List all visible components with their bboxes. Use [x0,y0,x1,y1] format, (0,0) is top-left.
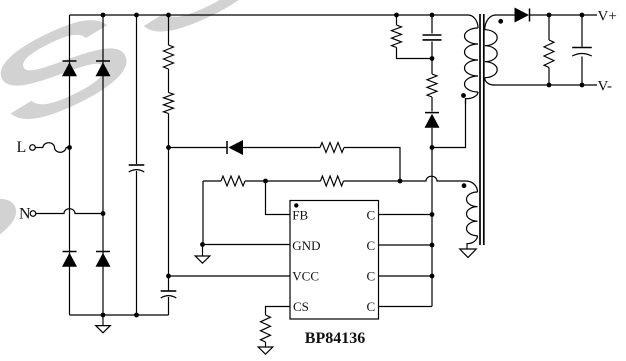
diode D1 bridge upper [63,60,77,62]
wire FB line [203,180,221,182]
node GND row [200,242,205,247]
node snubber C top [430,13,435,18]
wire bulk cap column bottom [136,171,138,315]
node snubber R top [394,13,399,18]
node out R top [547,13,552,18]
resistor R6 CS [261,315,271,342]
ground main [102,315,104,326]
secondary polarity dot [498,19,503,24]
wire divider to ground [202,181,204,245]
wire left column L [69,15,71,315]
wire GND pin [203,244,291,246]
wire FB pin [266,181,291,215]
node out C bottom [580,83,585,88]
aux polarity dot [462,183,467,188]
node top rail x136 [134,13,139,18]
svg-text:C: C [367,299,376,314]
svg-text:C: C [367,207,376,222]
resistor R8 load [548,15,550,40]
node bus row2 [430,243,435,248]
wire output top [530,14,598,16]
transformer core [479,14,481,245]
node VCC cap top [166,274,171,279]
svg-text:C: C [367,268,376,283]
diode D3 bridge lower [63,251,77,253]
capacitor C4 output electrolytic [581,15,583,47]
wire secondary top to diode [495,14,515,16]
svg-text:FB: FB [292,207,308,222]
resistor R7 snubber [396,15,398,25]
op-amp U1 BP84136 IC body [290,201,379,320]
ground G2 [202,245,204,257]
node out R bottom [547,83,552,88]
node top rail x168 [166,13,171,18]
node aux feed [398,179,403,184]
transformer T1 aux winding [466,181,478,192]
transformer T1 secondary winding [485,15,496,30]
svg-text:V-: V- [598,78,612,94]
watermark [0,0,283,303]
svg-text:VCC: VCC [292,268,319,283]
resistor R1 startup upper [164,45,174,69]
svg-text:C: C [367,238,376,253]
node bus row1 [430,212,435,217]
wire top rail [70,14,462,16]
diode D4 bridge lower [96,251,110,253]
node N-bridge [101,211,106,216]
node out C top [580,13,585,18]
wire N with hop over L column [36,209,103,214]
wire startup column [168,15,170,45]
diode D2 bridge upper [96,60,110,62]
diode D5 VCC rectifier (points left) [226,141,228,154]
wire N column [102,15,104,315]
fuse F1 [35,147,43,149]
node VCC rect output [166,145,171,150]
node bottom rail x103 [101,313,106,318]
wire FB line to aux with hop over drain bus [344,176,467,181]
node bus row3 [430,274,435,279]
wire CS pin [266,307,291,316]
wire drain to primary [432,98,466,148]
wire bulk cap column top [136,15,138,164]
capacitor C3 snubber [431,15,433,34]
transformer T1 primary winding [461,15,478,28]
wire output bottom [493,84,597,86]
wire drain pin stubs [379,214,433,216]
resistor R4 [221,176,245,186]
svg-text:BP84136: BP84136 [305,330,365,347]
node drain [430,145,435,150]
node R4-R5-FB [263,179,268,184]
resistor R2 startup lower [164,93,174,114]
pin 1 dot [294,203,298,207]
svg-text:GND: GND [292,238,320,253]
resistor R9 clamp [431,59,433,75]
ground G3 [265,342,267,347]
ground G4 aux [466,245,468,249]
diode D6 clamp (points up) [425,112,439,114]
wire bottom rail [70,314,169,316]
svg-text:CS: CS [293,299,309,314]
node L-bridge [67,145,72,150]
node bottom rail x136 [134,313,139,318]
resistor R3 [320,143,344,153]
capacitor C1 bulk electrolytic [129,164,145,166]
capacitor C2 VCC electrolytic [161,290,177,292]
wire VCC-rect line [169,147,228,149]
wire drain bus [431,148,433,307]
diode D7 output (points right) [515,8,530,23]
wire VCC pin [169,275,291,277]
svg-text:V+: V+ [598,8,617,24]
svg-text:N: N [19,206,31,223]
primary polarity dot [461,93,466,98]
node snubber junction [430,56,435,61]
node top rail x103 [101,13,106,18]
svg-text:L: L [17,139,27,156]
resistor R5 [321,176,344,186]
